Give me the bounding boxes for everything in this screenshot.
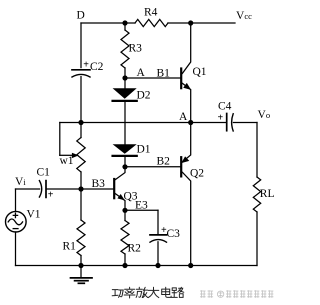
svg-text:w1: w1: [60, 155, 74, 167]
watermark 头条 电气自动化应用: [200, 290, 273, 298]
wire right column / resistor RL: [256, 123, 258, 178]
transistor Q3: [113, 179, 115, 198]
arrowhead Q3 emitter: [117, 194, 124, 200]
wire C2 to node junction: [80, 77, 82, 123]
svg-text:RL: RL: [260, 188, 275, 200]
junction dot rail R2: [122, 263, 127, 268]
wire feedback left: [59, 123, 61, 156]
resistor R3: [124, 23, 126, 30]
svg-text:C2: C2: [90, 61, 104, 73]
svg-text:+: +: [83, 59, 89, 70]
capacitor C4: [226, 114, 228, 131]
svg-text:C1: C1: [37, 166, 51, 178]
svg-text:Vcc: Vcc: [236, 10, 252, 22]
title 功率放大电路: [112, 287, 184, 298]
voltage source V1: [15, 189, 17, 211]
wire B2 to Q2 base: [125, 166, 180, 168]
arrowhead w1 wiper: [72, 153, 79, 158]
wire bottom rail: [16, 265, 258, 267]
svg-text:C3: C3: [167, 228, 181, 240]
svg-text:E3: E3: [135, 200, 148, 212]
wire node D vertical: [80, 23, 82, 68]
junction dot node A: [188, 120, 193, 125]
potentiometer w1: [80, 123, 82, 138]
wire node A horizontal: [60, 122, 227, 124]
wire top rail left: [81, 22, 135, 24]
capacitor C2: [72, 69, 90, 71]
svg-text:D2: D2: [137, 90, 151, 102]
arrowhead Q2 emitter (PNP into base): [181, 156, 189, 163]
junction dot top Q1: [188, 20, 193, 25]
svg-text:R1: R1: [63, 241, 77, 253]
junction dot node A1: [122, 75, 127, 80]
resistor R1: [80, 189, 82, 220]
wire node A1 to Q1 base: [125, 77, 180, 79]
wire C4 to Vo corner: [233, 122, 257, 124]
svg-text:A: A: [179, 111, 188, 123]
junction dot rail C3: [155, 263, 160, 268]
capacitor C1: [39, 181, 41, 197]
svg-text:C4: C4: [218, 101, 232, 113]
resistor R2: [124, 210, 126, 220]
wire input: [16, 188, 40, 190]
resistor R4: [135, 19, 168, 26]
svg-text:V1: V1: [27, 209, 41, 221]
svg-text:+: +: [218, 112, 224, 123]
svg-text:R2: R2: [128, 243, 142, 255]
svg-text:B1: B1: [157, 68, 171, 80]
svg-text:B2: B2: [157, 156, 171, 168]
transistor Q1: [180, 69, 182, 89]
capacitor C3: [157, 210, 159, 234]
svg-text:B3: B3: [92, 178, 106, 190]
diode D2 triangle: [113, 88, 137, 99]
junction dot E3: [122, 208, 127, 213]
junction dot rail Q2: [188, 263, 193, 268]
svg-text:R4: R4: [144, 7, 158, 19]
diode D2: [124, 78, 126, 88]
svg-text:D: D: [77, 10, 85, 22]
junction dot B3: [78, 186, 83, 191]
svg-text:+: +: [48, 190, 54, 201]
diode D1: [113, 155, 137, 157]
transistor Q2: [180, 157, 182, 176]
junction dot rail R1: [78, 263, 83, 268]
arrowhead Q1 emitter: [183, 83, 191, 90]
svg-text:A: A: [137, 67, 146, 79]
junction dot B2: [122, 164, 127, 169]
svg-text:D1: D1: [137, 144, 151, 156]
svg-text:Q2: Q2: [190, 168, 204, 180]
svg-text:Q1: Q1: [193, 66, 207, 78]
diode D1 triangle: [113, 144, 137, 154]
wire top rail right to Vcc: [168, 22, 235, 24]
svg-text:Vi: Vi: [15, 176, 26, 188]
junction dot top R3: [122, 20, 127, 25]
ground: [80, 266, 82, 278]
junction dot w1 top: [78, 120, 83, 125]
wire E3: [125, 209, 158, 211]
svg-text:R3: R3: [129, 43, 143, 55]
svg-text:Vo: Vo: [258, 109, 271, 121]
